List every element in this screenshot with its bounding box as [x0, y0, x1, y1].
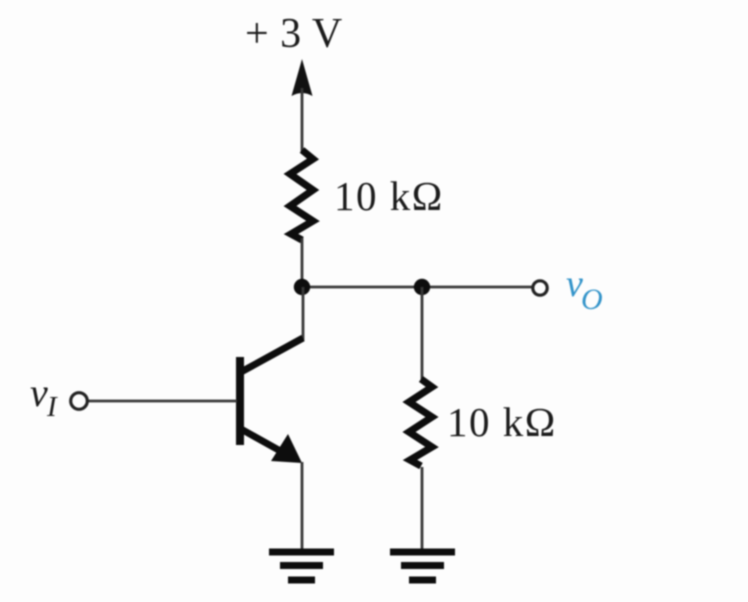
svg-text:10 kΩ: 10 kΩ — [447, 399, 557, 445]
svg-text:I: I — [46, 391, 58, 423]
svg-text:10 kΩ: 10 kΩ — [334, 173, 444, 219]
svg-text:v: v — [30, 370, 48, 415]
svg-text:O: O — [581, 283, 603, 316]
svg-text:+ 3 V: + 3 V — [245, 11, 343, 57]
